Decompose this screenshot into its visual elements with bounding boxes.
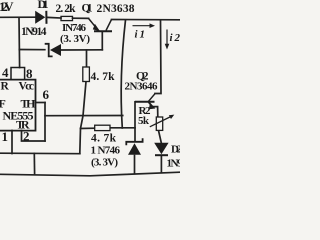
- wire bottom net y153.5: [0, 152, 80, 155]
- resistor 4.7k no2 box: [95, 125, 110, 130]
- IC U1 NE555 box: [0, 80, 36, 131]
- zener diode 1N746 top symbol: [45, 44, 61, 57]
- wire 4.7k no2 right to Q2 base: [110, 127, 135, 129]
- wire D2 cathode to ground: [160, 157, 162, 173]
- wire D1 cathode to 2.2k: [48, 16, 62, 19]
- wire 4.7k no1 vertical chain: [80, 50, 87, 154]
- transistor Q1 2N3638 symbol: [89, 18, 113, 31]
- diode D1 symbol: [35, 11, 46, 24]
- svg-text:(3. 3V): (3. 3V): [60, 33, 90, 45]
- potentiometer R2 5k box: [156, 117, 162, 130]
- svg-text:(3. 3V): (3. 3V): [91, 157, 118, 169]
- svg-text:2. 2k: 2. 2k: [56, 3, 77, 15]
- wire ground stub x34.5: [33, 154, 35, 174]
- wire Q2 base down to zener: [134, 102, 136, 142]
- wire pin6-pin2 vertical: [44, 103, 46, 142]
- wire ground rail: [0, 172, 180, 176]
- svg-text:Vcc: Vcc: [19, 81, 35, 93]
- transistor Q2 2N3646 symbol: [135, 94, 155, 109]
- svg-text:Q1: Q1: [82, 3, 93, 15]
- wire zener net horizontal: [19, 49, 45, 51]
- svg-text:4. 7k: 4. 7k: [91, 71, 116, 83]
- current arrow i2: [165, 30, 170, 50]
- wire 4.7k no2 left: [81, 127, 95, 129]
- wire TH net right: [45, 115, 123, 117]
- svg-text:2: 2: [23, 129, 30, 144]
- resistor 2.2k box: [61, 16, 73, 20]
- wire collector vertical x160.5: [155, 20, 161, 94]
- wire 2.2k to Q1 emitter: [73, 17, 89, 19]
- wire Q2 emitter to R2: [153, 107, 158, 117]
- wire zener2 bottom lead: [134, 156, 136, 174]
- svg-text:4. 7k: 4. 7k: [91, 133, 117, 145]
- wire Q1 base down: [101, 32, 103, 50]
- zener diode 1N746 bottom symbol: [126, 138, 142, 155]
- svg-text:5k: 5k: [138, 115, 150, 127]
- svg-text:2N3638: 2N3638: [97, 3, 135, 15]
- pins 4 8 top stubs: [11, 68, 25, 80]
- diode D2 symbol: [154, 143, 168, 155]
- svg-text:1N914: 1N914: [21, 26, 47, 38]
- svg-text:1: 1: [2, 129, 9, 144]
- svg-text:8: 8: [26, 66, 33, 81]
- wire Q1 collector rail right: [112, 19, 181, 21]
- svg-text:D2: D2: [171, 144, 180, 156]
- wire left vertical +12V to 555: [18, 17, 21, 67]
- svg-text:1 N746: 1 N746: [91, 145, 121, 157]
- svg-text:12V: 12V: [0, 0, 14, 14]
- svg-text:6: 6: [43, 87, 50, 102]
- wire pin2 bottom: [22, 131, 46, 142]
- current arrow i1: [133, 23, 156, 28]
- resistor 4.7k no1 box: [83, 67, 90, 82]
- wire pin6 stub: [36, 102, 46, 104]
- wire zener anode to Q1 base: [61, 49, 102, 51]
- wire R2 to D2: [159, 131, 162, 143]
- svg-text:2N3646: 2N3646: [125, 81, 159, 93]
- wire +12V top rail: [0, 16, 35, 18]
- potentiometer R2 arrow: [150, 115, 175, 127]
- svg-text:i2: i2: [170, 32, 181, 44]
- background paper: [0, 0, 180, 180]
- wire vertical rail-to-divider x125-122: [121, 20, 125, 128]
- svg-text:1N91: 1N91: [167, 158, 181, 170]
- svg-text:i1: i1: [135, 29, 146, 41]
- svg-text:R: R: [1, 81, 10, 93]
- wire pin1 down: [11, 131, 13, 154]
- svg-text:4: 4: [2, 65, 9, 80]
- svg-text:D1: D1: [38, 0, 49, 11]
